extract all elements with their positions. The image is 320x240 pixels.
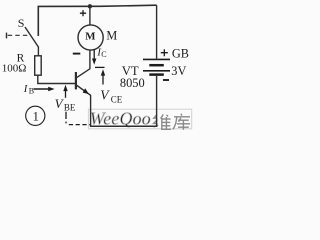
label minus battery bbox=[163, 79, 169, 81]
switch S blade bbox=[25, 27, 38, 47]
svg-text:S: S bbox=[18, 16, 25, 30]
motor M circle bbox=[78, 25, 103, 50]
voltage arrow VCE bbox=[95, 67, 105, 84]
wire resistor to base wire bbox=[38, 75, 76, 84]
node terminal 1 bbox=[26, 106, 45, 125]
wire bottom rail bbox=[90, 125, 157, 127]
wire right vertical top bbox=[156, 5, 158, 58]
label plus battery bbox=[161, 49, 168, 56]
node junction dot bbox=[88, 4, 92, 8]
svg-text:8050: 8050 bbox=[120, 76, 145, 90]
svg-text:BE: BE bbox=[64, 102, 76, 112]
switch S actuator terminal bar bbox=[6, 33, 8, 39]
svg-text:3V: 3V bbox=[171, 64, 186, 78]
watermark box bbox=[88, 109, 191, 129]
svg-text:M: M bbox=[85, 31, 95, 43]
dashed reference VBE to rail bbox=[65, 112, 67, 124]
svg-text:100Ω: 100Ω bbox=[2, 62, 27, 74]
transistor emitter lead with arrow bbox=[76, 85, 90, 95]
wire switch to resistor bbox=[37, 47, 39, 57]
svg-text:1: 1 bbox=[33, 110, 39, 124]
wire top rail bbox=[38, 5, 156, 36]
watermark CJK glyph wei bbox=[153, 115, 171, 130]
transistor VT base bar bbox=[75, 72, 77, 89]
resistor R body bbox=[35, 56, 42, 75]
current arrow IC bbox=[92, 50, 96, 65]
watermark CJK glyph ku bbox=[173, 114, 190, 130]
label plus motor bbox=[80, 10, 86, 16]
svg-text:C: C bbox=[101, 50, 106, 59]
voltage arrow VBE bbox=[63, 85, 67, 98]
wire emitter down bbox=[90, 95, 92, 127]
current arrow IB bbox=[34, 87, 55, 91]
svg-text:M: M bbox=[106, 28, 117, 42]
switch S actuator dashed link bbox=[8, 34, 28, 36]
transistor collector lead bbox=[76, 50, 90, 78]
wire motor top bbox=[89, 6, 91, 25]
wire battery down bbox=[156, 76, 158, 127]
svg-text:B: B bbox=[29, 86, 34, 95]
label minus motor bbox=[73, 53, 81, 55]
svg-text:GB: GB bbox=[172, 47, 189, 61]
svg-text:CE: CE bbox=[111, 95, 123, 105]
battery GB plates bbox=[143, 59, 170, 74]
